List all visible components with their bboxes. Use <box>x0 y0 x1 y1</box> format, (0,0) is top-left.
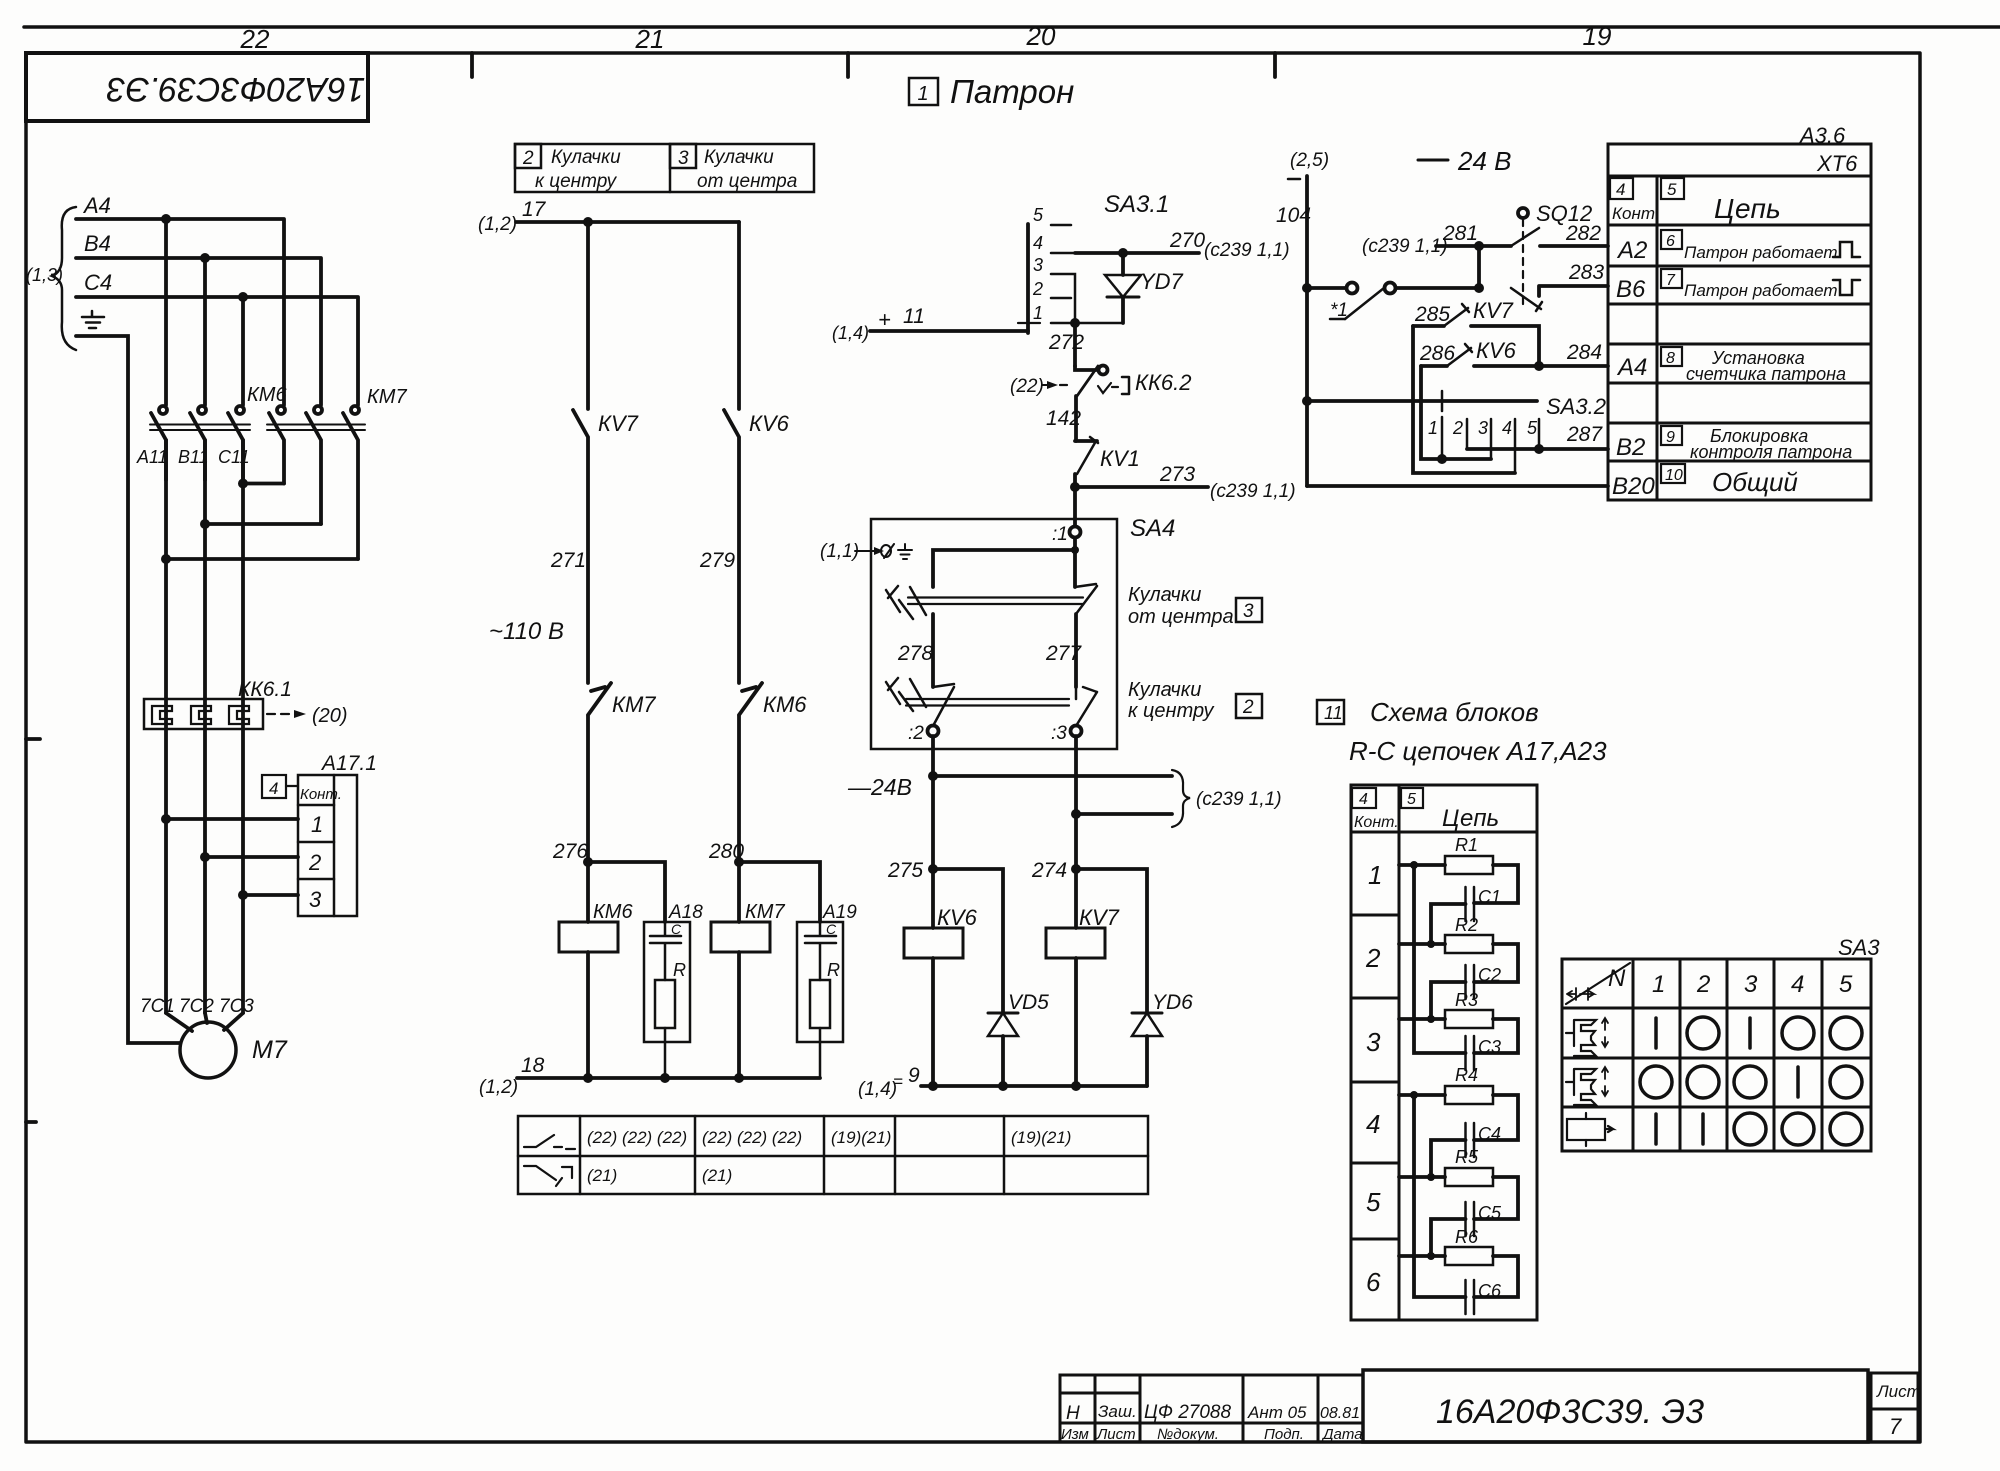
svg-text:1: 1 <box>917 83 928 105</box>
svg-text:7: 7 <box>1666 272 1676 289</box>
wire B20 (Общий) from (1,1) <box>1307 484 1608 488</box>
header 4 / Конт. <box>1610 178 1633 199</box>
terminal :2 <box>928 726 939 737</box>
svg-text:(20): (20) <box>312 705 348 727</box>
svg-text:1: 1 <box>1428 418 1438 438</box>
contactor NC contact KM6 <box>739 683 762 862</box>
svg-text:271: 271 <box>550 549 586 572</box>
svg-text:7С3: 7С3 <box>219 996 254 1017</box>
contactor KM7 main contacts <box>267 406 365 559</box>
svg-text:SА3: SА3 <box>1838 935 1880 960</box>
coil KM6 <box>586 862 590 922</box>
svg-text:Ант 05: Ант 05 <box>1247 1403 1307 1422</box>
svg-text:Патрон работает: Патрон работает <box>1684 281 1838 300</box>
resistor R6 <box>1399 1254 1445 1258</box>
svg-text:А17.1: А17.1 <box>320 752 377 775</box>
svg-text:5: 5 <box>1033 205 1044 225</box>
svg-text:11: 11 <box>1324 703 1343 723</box>
svg-text:R: R <box>827 960 840 980</box>
svg-text:YD7: YD7 <box>1140 269 1184 294</box>
svg-text:*1: *1 <box>1330 300 1348 321</box>
wire :2 down with tap to C239 <box>931 736 935 869</box>
svg-text:3: 3 <box>1033 255 1043 275</box>
wire to KV7 contact <box>586 222 590 409</box>
zone tick top 20/19 <box>1273 53 1277 77</box>
ground wire to motor <box>76 336 180 1043</box>
svg-text:Изм: Изм <box>1061 1426 1089 1443</box>
svg-text:9: 9 <box>908 1064 920 1087</box>
svg-text:КV1: КV1 <box>1100 446 1140 471</box>
wire 273 to (C239 1,1) <box>1075 485 1208 489</box>
net label -24 В <box>1418 159 1448 162</box>
svg-text:Патрон работает: Патрон работает <box>1684 243 1838 262</box>
sheet top edge line <box>24 25 2000 29</box>
limit switch SQ12 <box>1511 208 1542 311</box>
wire C4 <box>76 297 358 405</box>
diode VD6 <box>1132 1013 1162 1086</box>
resistor R1 <box>1399 863 1445 867</box>
svg-text:КМ6: КМ6 <box>593 901 633 923</box>
callout [11] Схема блоков R-C цепочек А17,А23 <box>1317 700 1344 724</box>
svg-text:281: 281 <box>1442 222 1478 245</box>
svg-text:3: 3 <box>309 887 322 912</box>
svg-text:КV7: КV7 <box>1079 905 1120 930</box>
brace (1,3) for incoming phase lines <box>52 207 76 350</box>
svg-text:А11: А11 <box>136 447 168 467</box>
svg-text:4: 4 <box>269 779 278 798</box>
svg-text:286: 286 <box>1419 342 1455 365</box>
svg-text:Кулачки: Кулачки <box>1128 584 1201 606</box>
svg-text:КV6: КV6 <box>1476 338 1517 363</box>
svg-text:С3: С3 <box>1478 1037 1501 1057</box>
svg-text:М7: М7 <box>252 1036 288 1064</box>
svg-text:Заш.: Заш. <box>1098 1402 1137 1421</box>
svg-text:А4: А4 <box>1616 354 1647 381</box>
svg-text:=: = <box>893 1072 903 1091</box>
connector A17.1 <box>298 775 357 916</box>
closing contact symbol <box>524 1135 575 1149</box>
svg-text:1: 1 <box>311 812 323 837</box>
contactor KM6 main contacts <box>150 406 250 480</box>
svg-text:SА3.2: SА3.2 <box>1546 394 1606 419</box>
svg-text:7С2: 7С2 <box>179 996 214 1017</box>
svg-text:А19: А19 <box>822 902 857 923</box>
svg-text:4: 4 <box>1366 1109 1380 1139</box>
header 4 / Конт. <box>1352 788 1376 808</box>
svg-text:SА4: SА4 <box>1130 515 1175 542</box>
svg-text:2: 2 <box>308 850 321 875</box>
svg-text:N: N <box>1608 965 1626 992</box>
svg-text:279: 279 <box>699 549 735 572</box>
coil KV7 <box>1074 869 1078 928</box>
svg-text:КК6.2: КК6.2 <box>1135 370 1192 395</box>
wire 270 to (C239 1,1) <box>1075 251 1199 255</box>
terminal :1 <box>1070 527 1081 538</box>
svg-text:5: 5 <box>1839 971 1853 998</box>
svg-text:А4: А4 <box>82 193 111 218</box>
cross-reference table (bottom middle) <box>518 1116 1148 1194</box>
terminal :3 <box>1071 726 1082 737</box>
svg-text:+: + <box>878 307 891 332</box>
svg-text:Лист: Лист <box>1876 1382 1921 1401</box>
svg-text:274: 274 <box>1031 859 1067 882</box>
header 5 / Цепь <box>1401 788 1423 808</box>
diode VD5 <box>988 1013 1018 1086</box>
svg-text:от центра: от центра <box>1128 606 1234 628</box>
svg-text:к центру: к центру <box>1128 700 1214 722</box>
svg-text:18: 18 <box>521 1054 545 1077</box>
row1 states <box>1654 1018 1658 1048</box>
svg-text:В20: В20 <box>1612 473 1655 500</box>
wire 284 <box>1534 361 1544 371</box>
svg-text:104: 104 <box>1276 204 1311 227</box>
rail 104 <box>1305 176 1309 486</box>
svg-text:(21): (21) <box>587 1166 617 1185</box>
svg-text:Конт.: Конт. <box>300 786 342 803</box>
svg-text:(с239 1,1): (с239 1,1) <box>1196 789 1282 810</box>
svg-text:22: 22 <box>240 24 270 54</box>
svg-text:(1,4): (1,4) <box>832 323 869 343</box>
phase verticals below contacts <box>166 440 243 1013</box>
svg-text:Кулачки: Кулачки <box>704 147 774 168</box>
svg-text:16А20Ф3С39.Э3: 16А20Ф3С39.Э3 <box>107 70 366 108</box>
svg-text:24 В: 24 В <box>1457 146 1512 176</box>
svg-text:В4: В4 <box>84 231 111 256</box>
svg-text:(19)(21): (19)(21) <box>831 1128 891 1147</box>
resistor R4 <box>1399 1093 1445 1097</box>
svg-text:4: 4 <box>1359 791 1368 808</box>
wire KV6 to pins 1,3 <box>1421 366 1491 459</box>
svg-text:287: 287 <box>1566 423 1603 446</box>
svg-text:Цепь: Цепь <box>1714 193 1781 224</box>
svg-text:1: 1 <box>1652 971 1665 998</box>
svg-text:КК6.1: КК6.1 <box>238 678 292 701</box>
svg-text:5: 5 <box>1527 418 1538 438</box>
svg-text:4: 4 <box>1502 418 1512 438</box>
wire KV7 to pin 4 <box>1413 326 1515 473</box>
svg-text:08.81: 08.81 <box>1320 1405 1360 1422</box>
svg-text:КV6: КV6 <box>937 905 978 930</box>
svg-text:(1,1): (1,1) <box>820 541 859 562</box>
svg-text:3: 3 <box>1243 601 1254 622</box>
svg-text:5: 5 <box>1366 1187 1381 1217</box>
svg-text:(1,2): (1,2) <box>478 214 517 235</box>
svg-text:(19)(21): (19)(21) <box>1011 1128 1071 1147</box>
svg-text:(22) (22) (22): (22) (22) (22) <box>702 1128 802 1147</box>
svg-text:(1,4): (1,4) <box>858 1079 897 1100</box>
header diagonal and N <box>1566 963 1630 1004</box>
svg-text:КМ7: КМ7 <box>367 386 407 408</box>
svg-text:—24В: —24В <box>847 774 912 800</box>
svg-text:Патрон: Патрон <box>950 73 1074 110</box>
svg-text:VD5: VD5 <box>1008 991 1049 1014</box>
svg-text:С5: С5 <box>1478 1203 1502 1223</box>
svg-text:276: 276 <box>552 840 588 863</box>
svg-text:(2,5): (2,5) <box>1290 150 1329 171</box>
crossover wire A11 to KM7 pole3 <box>166 557 358 561</box>
svg-text:3: 3 <box>1744 971 1758 998</box>
svg-text:284: 284 <box>1566 341 1602 364</box>
svg-text:R4: R4 <box>1455 1065 1478 1085</box>
svg-text:4: 4 <box>1033 233 1043 253</box>
wire tap to pin3 <box>243 893 298 897</box>
svg-text:Кулачки: Кулачки <box>551 147 621 168</box>
wire tap to pin2 <box>205 855 298 859</box>
plug contact *1 <box>1307 283 1478 320</box>
svg-text:счетчика патрона: счетчика патрона <box>1686 364 1846 384</box>
svg-text:Дата: Дата <box>1321 1426 1363 1443</box>
RC chain table frame <box>1351 785 1537 1320</box>
crossover wire B11 to KM7 pole2 <box>205 522 321 526</box>
thermal relay KK6.1 <box>144 699 263 729</box>
wire across to left pole <box>933 550 1075 587</box>
svg-text:№докум.: №докум. <box>1157 1426 1219 1443</box>
svg-text:А18: А18 <box>668 902 703 923</box>
pin label 4 box <box>262 775 286 798</box>
wire to KV6 contact <box>737 222 741 409</box>
svg-text:Кулачки: Кулачки <box>1128 679 1201 701</box>
brace to (C239 1,1) <box>1172 770 1190 827</box>
svg-text:SА3.1: SА3.1 <box>1104 191 1169 218</box>
svg-text:Конт.: Конт. <box>1612 204 1660 223</box>
wire tap to pin1 <box>166 817 298 821</box>
svg-text:19: 19 <box>1583 21 1612 51</box>
svg-text:R3: R3 <box>1455 990 1478 1010</box>
svg-text:2: 2 <box>1365 943 1381 973</box>
svg-text:Схема блоков: Схема блоков <box>1370 697 1539 727</box>
svg-text:2: 2 <box>522 148 534 169</box>
svg-text:(с239 1,1): (с239 1,1) <box>1204 240 1290 261</box>
svg-text:к центру: к центру <box>535 171 618 192</box>
svg-text:R1: R1 <box>1455 835 1478 855</box>
svg-text:2: 2 <box>1242 697 1254 718</box>
svg-text:(21): (21) <box>702 1166 732 1185</box>
svg-text::3: :3 <box>1051 723 1067 744</box>
svg-text:7: 7 <box>1889 1414 1902 1439</box>
svg-text:270: 270 <box>1169 229 1205 252</box>
ground symbol <box>82 311 104 328</box>
wire :3 down with tap to C239 <box>1074 736 1078 869</box>
svg-text:YD6: YD6 <box>1152 991 1193 1014</box>
wire B4 <box>76 258 321 405</box>
svg-text:16А20Ф3С39. Э3: 16А20Ф3С39. Э3 <box>1436 1393 1704 1431</box>
resistor R3 <box>1399 1017 1445 1021</box>
wire 287 (pins 2,5) <box>1467 447 1608 451</box>
svg-text:КМ7: КМ7 <box>612 692 656 717</box>
svg-text:КV7: КV7 <box>598 411 639 436</box>
svg-text:6: 6 <box>1366 1267 1381 1297</box>
svg-text:142: 142 <box>1046 407 1081 430</box>
svg-text:9: 9 <box>1666 429 1675 446</box>
relay contact KV1 <box>1075 437 1098 487</box>
svg-text:С2: С2 <box>1478 965 1501 985</box>
svg-text:А2: А2 <box>1616 237 1647 264</box>
title block <box>1060 1370 1918 1442</box>
svg-text:(1,3): (1,3) <box>26 265 63 285</box>
svg-text:контроля патрона: контроля патрона <box>1690 442 1852 462</box>
wire into SA4 <box>1073 487 1077 526</box>
svg-text:(22) (22) (22): (22) (22) (22) <box>587 1128 687 1147</box>
svg-text:17: 17 <box>522 198 547 221</box>
svg-text:(с239 1,1): (с239 1,1) <box>1210 481 1296 502</box>
svg-text:С: С <box>826 921 837 937</box>
svg-text:285: 285 <box>1414 303 1450 326</box>
zone tick left lower <box>26 1120 36 1124</box>
wire A4 <box>76 219 284 405</box>
resistor R2 <box>1399 942 1445 946</box>
svg-text:5: 5 <box>1407 791 1416 808</box>
svg-text:5: 5 <box>1667 180 1677 199</box>
svg-text:Общий: Общий <box>1712 467 1798 497</box>
zone tick top 21/20 <box>846 53 850 77</box>
svg-text:1: 1 <box>1368 860 1382 890</box>
svg-text:С6: С6 <box>1478 1281 1502 1301</box>
svg-text:Н: Н <box>1066 1403 1080 1424</box>
svg-text:(22): (22) <box>1010 376 1044 397</box>
header 5 / Цепь <box>1661 178 1684 199</box>
svg-text:R6: R6 <box>1455 1227 1479 1247</box>
svg-text:2: 2 <box>1696 971 1710 998</box>
svg-text:С1: С1 <box>1478 887 1501 907</box>
stamp box (inverted doc number) <box>26 53 368 121</box>
svg-text:(1,2): (1,2) <box>479 1077 518 1098</box>
svg-text:КV6: КV6 <box>749 411 790 436</box>
svg-text:КМ6: КМ6 <box>247 384 287 406</box>
row1 cam symbol <box>1566 1018 1608 1056</box>
svg-text:~110 В: ~110 В <box>489 618 564 645</box>
svg-text:272: 272 <box>1048 331 1084 354</box>
crossover wire C11 to KM7 pole1 <box>243 482 284 486</box>
svg-text:3: 3 <box>1366 1027 1381 1057</box>
wire 278 <box>931 614 935 687</box>
relay contact KV6 <box>724 410 739 683</box>
svg-text:277: 277 <box>1045 642 1082 665</box>
svg-text:С4: С4 <box>1478 1124 1501 1144</box>
svg-text:Цепь: Цепь <box>1442 805 1499 832</box>
thermal contact KK6.2 <box>1060 366 1129 442</box>
svg-text:3: 3 <box>1478 418 1488 438</box>
svg-text:ЦФ 27088: ЦФ 27088 <box>1144 1402 1231 1423</box>
svg-text:21: 21 <box>635 24 665 54</box>
svg-text::2: :2 <box>908 723 924 744</box>
wire 272 <box>1070 318 1080 328</box>
callout box: 2 Кулачки к центру / 3 Кулачки от центра <box>515 144 814 192</box>
svg-text:3: 3 <box>678 148 689 169</box>
svg-text:от центра: от центра <box>697 171 797 192</box>
SA4 lower contact pair (Кулачки к центру) <box>886 678 1097 726</box>
svg-text:2: 2 <box>1032 279 1043 299</box>
svg-text:Лист: Лист <box>1096 1426 1136 1443</box>
svg-text:1: 1 <box>1033 303 1043 323</box>
svg-text:7С1: 7С1 <box>140 996 175 1017</box>
row2 states <box>1640 1066 1672 1098</box>
svg-text:С4: С4 <box>84 270 112 295</box>
svg-text:275: 275 <box>887 859 923 882</box>
svg-text:10: 10 <box>1665 467 1683 484</box>
opening contact symbol <box>524 1166 572 1186</box>
coil KM7 <box>737 862 741 922</box>
svg-text:С11: С11 <box>218 447 250 467</box>
svg-text:20: 20 <box>1026 21 1056 51</box>
svg-text:Конт.: Конт. <box>1354 814 1399 831</box>
svg-text:С: С <box>671 921 682 937</box>
svg-text:КV7: КV7 <box>1473 298 1514 323</box>
coil KV6 <box>931 869 935 928</box>
svg-text:11: 11 <box>903 305 925 328</box>
svg-text:Подп.: Подп. <box>1264 1426 1304 1443</box>
svg-text:В6: В6 <box>1616 276 1646 303</box>
svg-text:273: 273 <box>1159 463 1195 486</box>
svg-text:R2: R2 <box>1455 915 1478 935</box>
svg-text:R: R <box>673 960 686 980</box>
svg-text:4: 4 <box>1616 180 1625 199</box>
svg-text:КМ6: КМ6 <box>763 692 807 717</box>
zone tick top 22/21 <box>470 53 474 77</box>
svg-text:КМ7: КМ7 <box>745 901 785 923</box>
relay contact KV7 <box>573 410 588 683</box>
motor M7 <box>180 1022 236 1078</box>
row3 cam symbol <box>1567 1113 1613 1146</box>
resistor R5 <box>1399 1175 1445 1179</box>
svg-text:6: 6 <box>1666 233 1675 250</box>
junction under :1 <box>1073 538 1077 587</box>
dashed arrow to (20) <box>267 713 296 715</box>
svg-text:282: 282 <box>1565 222 1601 245</box>
svg-text:В2: В2 <box>1616 434 1645 461</box>
diode YD7 <box>1105 253 1141 323</box>
wire 277 <box>1074 614 1078 687</box>
svg-text::1: :1 <box>1052 524 1068 545</box>
svg-text:ХТ6: ХТ6 <box>1816 151 1858 176</box>
row3 states <box>1654 1114 1658 1144</box>
svg-text:8: 8 <box>1666 350 1675 367</box>
SA4 upper contact pair (Кулачки от центра) <box>886 584 1097 619</box>
svg-text:283: 283 <box>1568 261 1604 284</box>
sheet title box [1] <box>909 78 938 105</box>
svg-text:278: 278 <box>897 642 933 665</box>
row2 cam symbol <box>1566 1067 1608 1105</box>
svg-text:R-С цепочек А17,А23: R-С цепочек А17,А23 <box>1349 736 1607 766</box>
switch SA3.2 common line <box>1307 399 1537 403</box>
svg-text:4: 4 <box>1791 971 1804 998</box>
contactor NC contact KM7 <box>588 683 611 862</box>
zone tick left <box>26 737 40 741</box>
svg-text:R5: R5 <box>1455 1147 1479 1167</box>
svg-text:2: 2 <box>1452 418 1463 438</box>
motor leads <box>166 1013 243 1031</box>
